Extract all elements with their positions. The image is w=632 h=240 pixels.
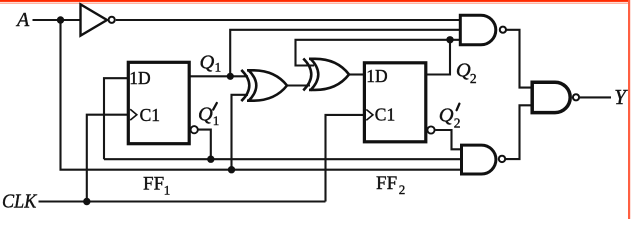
svg-text:Q: Q [200,52,215,74]
red right border [628,0,630,219]
XOR gate X1 [241,70,287,101]
XOR gate X2 [303,59,349,91]
NAND gate G3 [532,82,579,112]
node Q-bar1 junction on L1 [207,156,214,163]
wire inverter output to NAND1 input 1 [116,19,461,21]
svg-text:A: A [15,9,30,31]
label FF2 [376,173,405,197]
wire NAND3 output to Y [580,96,611,98]
red top border [0,0,630,2]
wire CLK riser to FF2 C1 [326,115,366,202]
wire XOR2 output to FF2 1D [349,73,365,75]
wire FF1 1D input [104,78,129,159]
svg-text:Y: Y [614,85,628,109]
svg-text:1: 1 [215,60,222,75]
svg-text:FF: FF [143,174,164,195]
svg-text:Q: Q [198,104,213,126]
wire XOR1 bottom input from L2 [232,95,249,170]
wire CLK riser to FF1 C1 [87,115,129,202]
node CLK junction [83,198,90,205]
wire Q-bar2 to NAND2 input 1 [436,130,462,149]
svg-text:1D: 1D [366,66,387,86]
FF1 clock triangle [130,109,137,120]
svg-text:2: 2 [399,182,406,197]
svg-text:C1: C1 [140,105,160,125]
wire NAND1 output to NAND3 input 1 [507,30,533,88]
wire A input [33,19,81,21]
FF2 clock triangle [366,110,373,121]
wire A riser down to L2 line [61,20,462,170]
svg-text:1D: 1D [129,68,150,88]
NAND gate G2 [462,145,506,174]
wire NAND2 output to NAND3 input 2 [506,105,532,159]
node Q1 junction [227,73,234,80]
svg-text:FF: FF [376,173,397,194]
FF2 Q-bar2 output bubble [427,126,434,133]
NAND gate G1 [460,15,506,45]
node Q2 junction [446,36,453,43]
wire Q-bar1 to L1 [198,130,211,160]
svg-text:C1: C1 [375,104,395,124]
label Q-bar1 [198,103,219,128]
svg-text:Q: Q [439,104,454,126]
svg-text:1: 1 [164,183,171,198]
node A junction [57,16,64,23]
svg-text:2: 2 [454,116,461,131]
inverter U1 [81,4,115,35]
label FF1 [143,174,170,198]
svg-text:CLK: CLK [2,190,38,212]
label Q-bar2 [439,104,461,131]
label Q1 [200,52,222,75]
flip-flop FF2 box [364,63,425,142]
svg-text:Q: Q [456,59,471,81]
svg-text:1: 1 [213,113,220,128]
wire CLK [39,200,326,202]
wire Q2 line to XOR2 top input and NAND1 input 3 [296,40,461,66]
FF1 Q-bar1 output bubble [191,126,198,133]
wire XOR1 output to XOR2 input [287,84,310,86]
node A-line junction on L2 [228,166,235,173]
label Q2 [456,59,477,85]
wire L1 Q-bar1 feedback to NAND2 input 2 [104,158,462,160]
wire Q1 riser to NAND1 input 2 [230,30,460,77]
wire Q2 to riser [426,40,450,75]
wire Q1 to XOR1 top input [189,75,248,77]
flip-flop FF1 box [128,62,189,143]
svg-text:2: 2 [470,71,477,86]
